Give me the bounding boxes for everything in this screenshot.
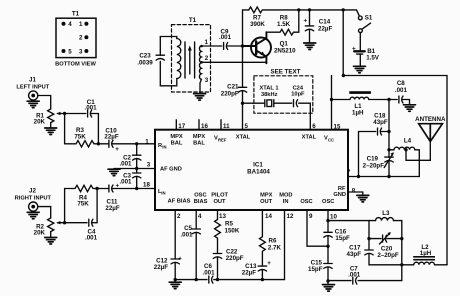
wire C1 branch [65,114,86,144]
svg-text:C19: C19 [367,155,379,162]
wire pin 4 [195,210,197,229]
svg-text:RIGHT INPUT: RIGHT INPUT [15,196,52,202]
svg-text:1: 1 [205,39,209,46]
node pin9/C15 [326,245,329,248]
svg-text:.001: .001 [85,235,98,242]
svg-text:OSC: OSC [300,199,312,205]
wire antenna lead [406,142,430,161]
jack J1 [29,91,38,100]
svg-text:.001: .001 [219,34,232,41]
capacitor C13 [258,266,266,280]
ground under J1 [27,101,39,108]
wire pin 2 [174,210,176,259]
svg-text:L3: L3 [382,210,390,217]
ground under B1 [354,66,366,73]
svg-text:CC: CC [328,137,334,142]
svg-text:Q1: Q1 [280,41,289,48]
capacitor C21 [238,46,246,130]
capacitor C24 [294,100,298,107]
svg-text:.001: .001 [395,87,408,94]
wire jack J2 tip to R2 [38,207,51,218]
resistor R8 [266,10,298,38]
jack J2 [29,202,38,211]
ground under R2 [50,232,52,237]
wire pin 8 to ground [348,192,363,195]
T1 bottom view labels [55,11,96,68]
IC bottom pin labels [168,192,338,220]
capacitor C4 [89,189,97,227]
svg-text:C23: C23 [139,52,151,59]
svg-text:15pF: 15pF [308,266,323,273]
capacitor C10 [98,140,155,147]
capacitor C3 [133,173,141,178]
svg-text:2.7K: 2.7K [268,244,282,251]
svg-text:+: + [352,45,356,52]
svg-text:7: 7 [347,169,351,176]
node J2 wiper [63,221,66,224]
wire C2/C3 chain [136,144,138,189]
wire top rail to S1 [299,10,360,16]
node pin5/xtal wire [241,102,244,105]
wire top rail left [243,10,249,46]
IC top pin labels [170,134,334,146]
node pin2 rail [174,278,177,281]
svg-text:4: 4 [198,213,202,220]
node tank bottom right [400,263,403,266]
svg-text:+: + [267,260,271,267]
ground under J2 [27,212,39,219]
svg-text:S1: S1 [365,14,373,21]
svg-text:43pF: 43pF [347,251,362,258]
wire T1 pin 1 to C9 [202,45,222,47]
svg-text:OSC: OSC [322,199,334,205]
svg-text:17: 17 [178,123,185,130]
capacitor C1 [88,110,99,144]
wire xtal row [243,103,311,130]
node C1/R3 right [97,142,100,145]
ground under C14 [304,43,316,50]
pin 17 stub [175,120,177,130]
wire pin10 to tank [328,220,369,222]
svg-text:OUT: OUT [213,199,226,205]
wire T1 pin 2 to Q1 emitter [202,61,267,63]
svg-text:BOTTOM VIEW: BOTTOM VIEW [55,62,96,68]
svg-text:3: 3 [79,48,83,55]
svg-text:J1: J1 [29,77,36,84]
transformer T1 secondary winding [199,46,201,80]
svg-text:BIAS: BIAS [194,199,208,205]
node J1 wiper [63,112,66,115]
battery B1 [359,33,361,51]
svg-text:22µF: 22µF [104,134,118,141]
svg-text:2: 2 [205,55,209,62]
svg-text:220pF: 220pF [226,255,244,262]
transformer T1 dashed box [172,25,211,92]
trimmer capacitor C20 [369,238,402,240]
svg-text:22µF: 22µF [242,270,256,277]
svg-text:BA1404: BA1404 [247,168,270,175]
svg-text:.001: .001 [202,269,215,276]
wire pin3 to ground [114,168,155,170]
wire C18 riser [359,132,376,177]
potentiometer R1 [48,109,54,123]
crystal XTAL1 [265,100,274,107]
SEE TEXT dashed box [254,76,313,113]
inductor L3 [369,220,376,222]
svg-text:9: 9 [309,213,313,220]
svg-text:IN: IN [283,199,289,205]
svg-text:C24: C24 [293,85,304,91]
svg-text:J2: J2 [29,188,36,195]
switch S1 [358,16,362,20]
pin 16 stub [198,120,200,130]
transformer T1 primary winding [177,39,181,79]
transistor Q1 [243,32,272,63]
bottom rail with C6 [175,210,284,280]
svg-text:IN: IN [161,191,165,196]
svg-text:15pF: 15pF [335,235,350,242]
svg-text:5: 5 [68,48,72,55]
svg-text:.0039: .0039 [137,60,153,67]
capacitor C15 [324,264,332,269]
svg-text:LEFT INPUT: LEFT INPUT [16,85,49,91]
svg-text:20K: 20K [34,119,46,126]
svg-text:1: 1 [145,138,149,145]
resistor R6 [260,210,266,266]
svg-text:PILOT: PILOT [211,192,228,198]
node AF GND [135,167,138,170]
trimmer capacitor C19 [385,157,393,162]
svg-text:2–20pF: 2–20pF [363,163,385,170]
node rail corner [342,74,345,77]
op-amp IC1 BA1404 body [155,130,348,210]
IC left pin labels [143,138,182,195]
svg-text:75K: 75K [74,134,86,141]
svg-text:75K: 75K [77,201,89,208]
svg-text:MPX: MPX [170,134,183,140]
svg-text:.001: .001 [84,105,97,112]
svg-text:RF: RF [338,186,346,192]
resistor R4 [65,185,98,191]
svg-text:1.5K: 1.5K [277,21,291,28]
svg-text:38kHz: 38kHz [261,92,278,98]
node L1/C8 [387,98,390,101]
svg-text:10: 10 [330,214,337,221]
node C18/vertical [387,130,390,133]
svg-text:.001: .001 [119,160,132,167]
svg-text:.001: .001 [180,232,193,239]
svg-text:+: + [115,146,119,153]
svg-text:14: 14 [265,213,272,220]
svg-text:220pF: 220pF [221,90,239,97]
node R-in / C2 [135,142,138,145]
svg-text:43pF: 43pF [373,119,388,126]
node pin10 [326,219,329,222]
ground under C8 [404,105,416,112]
node base junction [241,44,244,47]
svg-text:XTAL: XTAL [236,134,251,140]
svg-text:22µF: 22µF [154,264,168,271]
svg-text:1µH: 1µH [352,110,364,117]
node L4 left [387,148,390,151]
T1 bottom view box [56,18,96,57]
svg-text:3: 3 [205,77,209,84]
wire T1 pin 3 to ground [200,79,201,93]
capacitor C22 [213,254,221,280]
node C20 right [400,237,403,240]
svg-text:XTAL 1: XTAL 1 [259,86,278,92]
resistor R5 [215,210,221,253]
wire pin 10 chain [327,210,329,281]
capacitor C5 [192,229,200,280]
potentiometer R2 [48,218,54,232]
svg-text:+: + [178,256,182,263]
wire C4 branch [65,189,87,223]
antenna [419,124,443,142]
svg-text:12: 12 [287,213,294,220]
capacitor C7 [353,277,357,284]
svg-text:8: 8 [352,187,356,194]
node C19 bottom [387,175,390,178]
capacitor C9 [224,43,243,50]
svg-text:ANTENNA: ANTENNA [415,116,446,123]
svg-text:.001: .001 [348,271,361,278]
node R7/R8 [297,8,300,11]
node rail vertical top [342,8,345,11]
svg-text:3: 3 [147,161,151,168]
capacitor C2 [133,155,141,160]
node C20 left [367,237,370,240]
svg-text:2–20pF: 2–20pF [377,252,399,259]
svg-text:6: 6 [312,123,316,130]
svg-text:5: 5 [245,123,249,130]
svg-text:18: 18 [143,182,150,189]
svg-text:BAL: BAL [193,141,205,147]
svg-text:20K: 20K [34,230,46,237]
svg-text:1.5V: 1.5V [366,55,380,62]
capacitor C6 [209,276,213,283]
svg-text:16: 16 [201,123,208,130]
svg-text:15: 15 [334,123,341,130]
wire C7 row [328,280,402,282]
IC right pin labels [333,169,355,198]
svg-text:11: 11 [223,123,230,130]
inductor L1 with core [332,99,351,101]
node L-in / C3 [135,187,138,190]
node C15 ground [326,279,329,282]
svg-text:4: 4 [68,21,72,28]
wire power rail right [343,76,447,265]
capacitor C18 [378,128,390,135]
svg-text:T1: T1 [72,11,80,18]
node L1 left [330,98,333,101]
svg-text:1µH: 1µH [420,250,432,257]
wire Q1 emitter down/left [265,62,267,63]
svg-text:2N5210: 2N5210 [274,48,296,55]
capacitor C12 [171,259,179,280]
svg-text:IN: IN [162,145,166,150]
node pin4 rail [195,278,198,281]
node antenna tap [404,148,407,151]
node pin14 rail [261,278,264,281]
svg-text:OUT: OUT [260,199,273,205]
node R4/C4 [95,187,98,190]
wire rail vertical [342,10,344,76]
svg-text:XTAL: XTAL [302,134,317,140]
svg-text:MOD: MOD [279,192,292,198]
pin 11 stub [220,120,222,130]
ground under R1 [50,123,52,128]
ground bottom rail [174,280,176,282]
node T1 pin 1 [200,45,203,48]
svg-text:REF: REF [218,137,227,142]
node pin7/C18 riser [357,175,360,178]
wire pin 9 [307,210,328,246]
svg-text:BAL: BAL [171,141,183,147]
svg-text:390K: 390K [250,21,265,28]
inductor L2 with core [402,264,414,266]
wire L1 node to C19 [388,100,390,177]
svg-text:2: 2 [177,213,181,220]
svg-text:SEE TEXT: SEE TEXT [271,69,301,76]
svg-text:L4: L4 [404,137,412,144]
svg-text:AF BIAS: AF BIAS [168,199,191,205]
transformer T1 core and tuning arrow [185,42,195,78]
svg-text:+: + [116,182,120,189]
node C14 top [308,8,311,11]
svg-text:22µF: 22µF [105,205,119,212]
svg-text:AF GND: AF GND [160,167,182,173]
node T1 pin 2 [200,61,203,64]
svg-text:IC1: IC1 [253,161,263,168]
capacitor C11 [97,185,155,192]
svg-text:OSC: OSC [194,192,206,198]
capacitor C23 [156,55,164,60]
capacitor C8 [389,96,410,104]
svg-text:T1: T1 [189,17,197,24]
svg-text:13: 13 [219,213,226,220]
wire jack J1 tip to R1 [38,96,51,110]
capacitor C16 [324,232,332,237]
ground under C15 [327,281,329,284]
oscillator tank left vertical with C17 [369,221,402,265]
node pin13 rail [216,278,219,281]
svg-text:.001: .001 [119,178,132,185]
svg-text:1: 1 [79,21,83,28]
resistor R3 [65,141,99,147]
svg-text:+: + [304,18,308,25]
svg-text:150K: 150K [225,228,240,235]
svg-text:10pF: 10pF [291,92,305,98]
inductor L4 [389,149,394,151]
resistor R7 [249,7,299,13]
svg-text:2: 2 [79,35,83,42]
wire pin 7 [348,176,419,178]
svg-text:R5: R5 [225,221,233,228]
wire Vcc pin15 vertical [331,76,333,130]
svg-text:22µF: 22µF [318,25,332,32]
svg-text:MPX: MPX [193,134,206,140]
capacitor C14 [305,10,313,42]
capacitor C17 [365,250,373,255]
svg-text:GND: GND [333,192,346,198]
svg-text:MPX: MPX [260,192,273,198]
